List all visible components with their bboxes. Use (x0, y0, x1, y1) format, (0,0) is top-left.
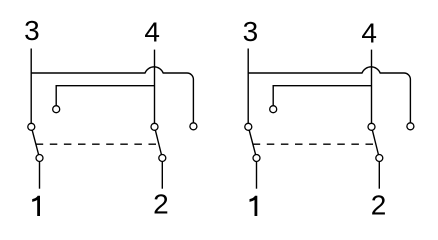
label: terminal 1 (unit S1) (32, 196, 40, 216)
svg-text:2: 2 (371, 189, 387, 220)
contact circle: pole 1 top (28, 123, 35, 130)
contact circle: pole 2 top (368, 123, 375, 130)
svg-text:3: 3 (24, 15, 40, 46)
contact circle: open stub (270, 106, 277, 113)
wire: terminal 3 vertical (30, 49, 32, 127)
contact circle: pole 2 bottom (376, 155, 383, 162)
svg-text:2: 2 (153, 189, 169, 220)
wire: terminal 2 vertical (378, 158, 380, 189)
label: terminal 1 (unit S2) (250, 196, 258, 216)
wire: terminal 4 vertical (371, 50, 373, 127)
wire: node 3 horizontal with hop over pin-4 wire, corner down to NC contact (31, 67, 193, 126)
svg-text:3: 3 (243, 16, 259, 47)
contact circle: open stub (53, 106, 60, 113)
svg-text:4: 4 (144, 17, 160, 48)
svg-text:4: 4 (361, 17, 377, 48)
wire: mechanical link (dashed) (253, 143, 376, 145)
wire: terminal 1 vertical (39, 158, 41, 189)
wire: terminal 3 vertical (247, 49, 249, 127)
wire: terminal 1 vertical (256, 158, 258, 189)
wire: pole 2 switch arm (155, 127, 163, 158)
contact circle: pole 2 top (151, 123, 158, 130)
wire: pole 1 switch arm (31, 127, 39, 158)
wire: terminal 2 vertical (161, 158, 163, 189)
wire: mechanical link (dashed) (36, 143, 159, 145)
wire: pole 1 switch arm (248, 127, 256, 158)
switch unit S2 (245, 49, 414, 189)
wire: terminal 4 vertical (154, 50, 156, 127)
contact circle: pole 2 bottom (159, 155, 166, 162)
contact circle: right NC contact (190, 123, 197, 130)
switch unit S1 (28, 49, 197, 189)
contact circle: pole 1 bottom (36, 155, 43, 162)
contact circle: right NC contact (407, 123, 414, 130)
wire: branch from pin 4 to open contact stub (273, 86, 371, 110)
contact circle: pole 1 bottom (253, 155, 260, 162)
wire: node 3 horizontal with hop over pin-4 wire, corner down to NC contact (248, 67, 410, 126)
contact circle: pole 1 top (245, 123, 252, 130)
wire: branch from pin 4 to open contact stub (56, 86, 154, 110)
wire: pole 2 switch arm (372, 127, 380, 158)
